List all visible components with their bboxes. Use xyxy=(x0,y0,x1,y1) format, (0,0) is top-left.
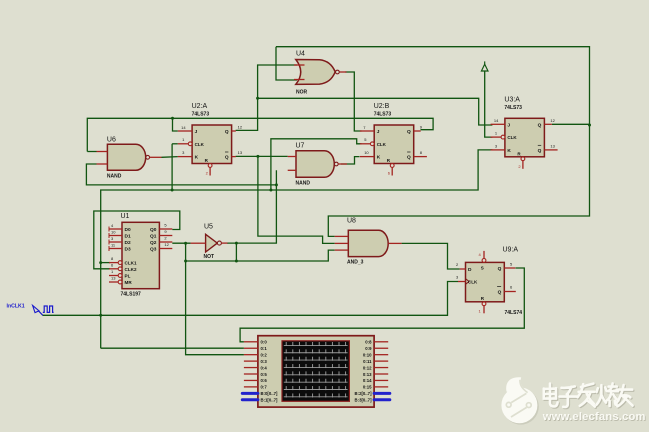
svg-text:PL: PL xyxy=(125,274,131,279)
svg-text:74LS73: 74LS73 xyxy=(504,105,522,111)
svg-text:12: 12 xyxy=(238,125,243,130)
svg-text:Q1: Q1 xyxy=(150,234,157,240)
svg-text:D0: D0 xyxy=(125,227,131,233)
svg-text:Q: Q xyxy=(498,290,502,296)
svg-text:U2:A: U2:A xyxy=(192,103,208,110)
svg-text:0:5: 0:5 xyxy=(261,372,268,377)
svg-text:B:3[0..7]: B:3[0..7] xyxy=(355,398,373,403)
svg-text:10: 10 xyxy=(111,229,116,234)
svg-text:0:11: 0:11 xyxy=(363,359,372,364)
svg-text:0:10: 0:10 xyxy=(363,352,372,357)
svg-text:0:6: 0:6 xyxy=(261,378,268,383)
svg-text:K: K xyxy=(507,148,511,154)
svg-text:U5: U5 xyxy=(204,224,213,231)
svg-text:www.elecfans.com: www.elecfans.com xyxy=(542,411,646,423)
svg-text:12: 12 xyxy=(550,118,555,123)
svg-text:U4: U4 xyxy=(296,51,305,58)
svg-text:B:0[0..7]: B:0[0..7] xyxy=(261,391,279,396)
svg-text:U7: U7 xyxy=(296,143,305,150)
svg-text:B:2[0..7]: B:2[0..7] xyxy=(355,391,373,396)
svg-text:0:9: 0:9 xyxy=(365,346,372,351)
svg-text:K: K xyxy=(377,155,381,161)
svg-text:74LS74: 74LS74 xyxy=(505,310,523,316)
svg-text:InCLK1: InCLK1 xyxy=(7,304,25,310)
svg-text:CLK: CLK xyxy=(468,280,478,285)
svg-text:74LS197: 74LS197 xyxy=(121,292,142,298)
svg-text:D1: D1 xyxy=(125,234,131,240)
svg-text:MR: MR xyxy=(125,280,133,285)
svg-text:Q: Q xyxy=(225,129,229,135)
svg-text:0:12: 0:12 xyxy=(363,365,372,370)
svg-text:Q: Q xyxy=(538,122,542,128)
svg-text:74LS73: 74LS73 xyxy=(374,112,392,118)
svg-text:13: 13 xyxy=(111,276,116,281)
svg-text:0:0: 0:0 xyxy=(261,340,268,345)
svg-text:13: 13 xyxy=(550,143,555,148)
svg-text:0:15: 0:15 xyxy=(363,385,372,390)
svg-text:U8: U8 xyxy=(347,218,356,225)
svg-text:NOR: NOR xyxy=(296,90,308,96)
svg-text:0:2: 0:2 xyxy=(261,352,268,357)
svg-text:U6: U6 xyxy=(107,136,116,143)
svg-text:Q2: Q2 xyxy=(150,240,157,246)
svg-text:Q: Q xyxy=(498,266,502,272)
svg-text:14: 14 xyxy=(494,118,499,123)
svg-text:14: 14 xyxy=(181,125,186,130)
svg-text:NOT: NOT xyxy=(204,254,215,260)
svg-text:13: 13 xyxy=(238,150,243,155)
svg-text:U2:B: U2:B xyxy=(374,103,390,110)
svg-text:0:4: 0:4 xyxy=(261,365,268,370)
svg-text:CLK1: CLK1 xyxy=(125,261,137,266)
svg-text:NAND: NAND xyxy=(107,173,122,179)
svg-text:J: J xyxy=(377,129,380,135)
svg-text:K: K xyxy=(195,155,199,161)
svg-text:0:8: 0:8 xyxy=(365,340,372,345)
svg-text:Q3: Q3 xyxy=(150,247,157,253)
svg-text:Q: Q xyxy=(538,148,542,154)
svg-text:D: D xyxy=(468,267,472,273)
svg-text:Q: Q xyxy=(407,129,411,135)
svg-text:0:13: 0:13 xyxy=(363,372,372,377)
svg-text:CLK: CLK xyxy=(195,142,205,147)
svg-text:U1: U1 xyxy=(121,213,130,220)
svg-text:CLK: CLK xyxy=(507,135,517,140)
svg-text:CLK: CLK xyxy=(377,142,387,147)
svg-text:0:7: 0:7 xyxy=(261,385,268,390)
svg-text:12: 12 xyxy=(164,242,169,247)
svg-text:74LS73: 74LS73 xyxy=(192,112,210,118)
svg-text:10: 10 xyxy=(364,150,369,155)
svg-text:J: J xyxy=(507,122,510,128)
svg-text:D3: D3 xyxy=(125,247,131,253)
svg-text:AND_3: AND_3 xyxy=(347,260,364,266)
svg-text:0:14: 0:14 xyxy=(363,378,372,383)
svg-text:J: J xyxy=(195,129,198,135)
svg-text:Q: Q xyxy=(225,155,229,161)
svg-text:S: S xyxy=(481,266,484,271)
svg-text:Q: Q xyxy=(407,155,411,161)
svg-text:0:1: 0:1 xyxy=(261,346,268,351)
svg-text:NAND: NAND xyxy=(296,180,311,186)
svg-text:0:3: 0:3 xyxy=(261,359,268,364)
svg-text:CLK2: CLK2 xyxy=(125,267,137,272)
svg-text:U3:A: U3:A xyxy=(504,96,520,103)
svg-text:D2: D2 xyxy=(125,240,131,246)
svg-text:B:1[0..7]: B:1[0..7] xyxy=(261,398,279,403)
svg-text:U9:A: U9:A xyxy=(503,247,519,254)
svg-text:Q0: Q0 xyxy=(150,227,157,233)
